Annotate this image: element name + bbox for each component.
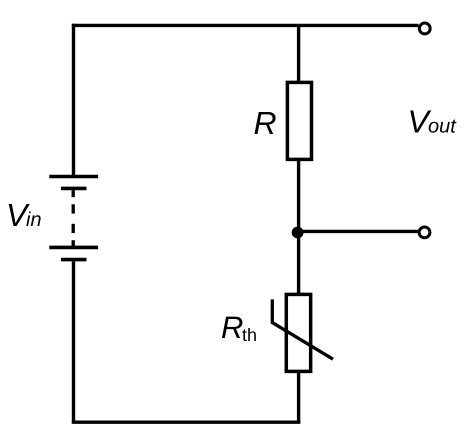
wire: middle horizontal from junction to middle-right terminal	[299, 230, 419, 233]
wire: between resistor R and junction node	[297, 159, 300, 234]
battery Vin (multi-cell with dashed omission)	[49, 177, 98, 260]
thermistor Rth	[272, 294, 333, 371]
label R	[254, 112, 275, 134]
wire: thermistor bottom to bottom wire	[297, 371, 300, 423]
wire: top horizontal from battery to top-right terminal	[72, 24, 419, 27]
terminal: middle-right open circle	[419, 227, 430, 238]
resistor R	[287, 82, 311, 159]
wire: left vertical from battery bottom to bottom wire	[72, 261, 75, 423]
wire: between junction and thermistor Rth	[297, 232, 300, 295]
terminal: top-right open circle	[419, 23, 430, 34]
wire: branch vertical from top wire to resistor R	[297, 24, 300, 83]
node: junction dot	[292, 227, 304, 239]
label Vin	[9, 204, 41, 226]
wire: left vertical from top wire down to battery top plate	[72, 24, 75, 177]
label Vout	[410, 110, 456, 132]
wire: bottom horizontal	[72, 421, 300, 424]
label Rth	[222, 317, 256, 341]
